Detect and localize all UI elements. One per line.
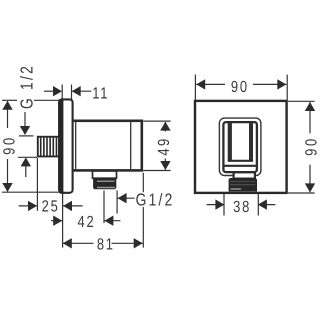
svg-text:49: 49 bbox=[155, 136, 173, 155]
svg-text:90: 90 bbox=[1, 135, 19, 155]
svg-text:11: 11 bbox=[92, 84, 109, 102]
svg-text:G1/2: G1/2 bbox=[136, 189, 175, 209]
svg-text:90: 90 bbox=[302, 136, 320, 156]
svg-text:90: 90 bbox=[231, 78, 249, 96]
svg-text:42: 42 bbox=[78, 213, 96, 231]
svg-text:G 1/2: G 1/2 bbox=[16, 64, 36, 109]
svg-text:38: 38 bbox=[233, 198, 251, 216]
svg-text:81: 81 bbox=[97, 236, 115, 254]
svg-text:25: 25 bbox=[42, 198, 60, 216]
